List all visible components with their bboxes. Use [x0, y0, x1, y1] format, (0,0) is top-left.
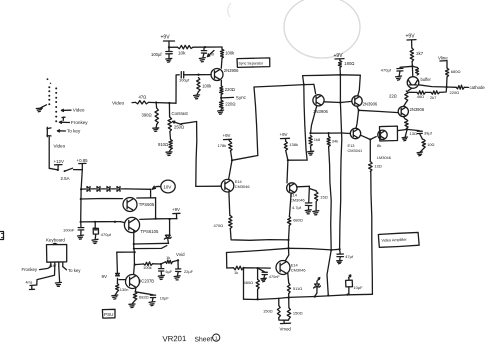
- svg-text:Vline: Vline: [438, 56, 448, 61]
- svg-text:Fronkey: Fronkey: [71, 120, 88, 125]
- svg-text:10µF: 10µF: [353, 285, 363, 290]
- svg-text:100µf: 100µf: [179, 78, 190, 83]
- svg-text:+9V: +9V: [172, 207, 180, 212]
- svg-text:10µF: 10µF: [160, 295, 170, 300]
- svg-text:Video: Video: [112, 101, 125, 107]
- svg-text:910Ω: 910Ω: [158, 142, 168, 147]
- svg-text:470Ω: 470Ω: [214, 223, 224, 228]
- svg-text:4.7µf: 4.7µf: [292, 205, 302, 210]
- svg-text:BC237B: BC237B: [139, 279, 155, 284]
- svg-text:Video: Video: [54, 144, 66, 149]
- svg-text:682Ω: 682Ω: [139, 295, 149, 300]
- svg-text:To key: To key: [68, 268, 81, 273]
- svg-text:+9V: +9V: [223, 133, 231, 138]
- svg-text:1k8: 1k8: [314, 137, 321, 142]
- svg-text:39µf: 39µf: [424, 131, 433, 136]
- svg-text:138k: 138k: [289, 142, 298, 147]
- svg-text:cathode: cathode: [470, 85, 486, 90]
- svg-text:100nF: 100nF: [63, 228, 75, 233]
- svg-text:Sync Separator: Sync Separator: [239, 62, 264, 66]
- svg-text:470nF: 470nF: [269, 275, 280, 279]
- svg-text:680Ω: 680Ω: [244, 280, 254, 285]
- svg-text:680Ω: 680Ω: [293, 217, 303, 222]
- svg-text:Keyboard: Keyboard: [46, 238, 65, 243]
- svg-text:180Ω: 180Ω: [344, 61, 354, 66]
- svg-text:15Ω: 15Ω: [320, 195, 327, 200]
- svg-text:6µF: 6µF: [166, 269, 173, 274]
- svg-text:13Ω: 13Ω: [374, 164, 381, 169]
- svg-text:9V: 9V: [102, 274, 109, 279]
- svg-text:22Ω: 22Ω: [389, 93, 397, 98]
- svg-text:1k: 1k: [166, 255, 170, 260]
- svg-text:150Ω: 150Ω: [293, 311, 303, 316]
- svg-text:buffer: buffer: [421, 77, 432, 82]
- svg-text:2N3906: 2N3906: [410, 107, 425, 112]
- svg-text:47µf: 47µf: [345, 254, 354, 259]
- svg-text:22µF: 22µF: [184, 269, 194, 274]
- svg-text:178k: 178k: [218, 143, 227, 148]
- svg-text:470µf: 470µf: [101, 232, 112, 237]
- svg-text:+9V: +9V: [280, 132, 288, 137]
- svg-text:1: 1: [215, 336, 218, 342]
- svg-text:2N3906: 2N3906: [363, 102, 378, 107]
- svg-text:Vmod: Vmod: [280, 327, 292, 332]
- svg-text:CM3046: CM3046: [235, 184, 250, 189]
- svg-text:Fronkey: Fronkey: [22, 267, 38, 272]
- svg-text:150Ω: 150Ω: [263, 309, 273, 314]
- svg-text:2k7: 2k7: [416, 51, 423, 56]
- svg-text:CM3046: CM3046: [290, 197, 305, 202]
- svg-text:250Ω: 250Ω: [174, 125, 184, 130]
- svg-text:2N3906: 2N3906: [224, 68, 239, 73]
- svg-text:34k: 34k: [332, 138, 338, 143]
- svg-text:LM3046: LM3046: [377, 155, 391, 160]
- svg-text:220Ω: 220Ω: [450, 90, 460, 95]
- svg-text:130n: 130n: [120, 287, 129, 292]
- svg-text:13Ω: 13Ω: [410, 131, 417, 136]
- svg-text:+9V: +9V: [161, 35, 171, 41]
- svg-text:220Ω: 220Ω: [225, 87, 235, 92]
- svg-text:100k: 100k: [225, 50, 235, 55]
- svg-text:10Ω: 10Ω: [427, 142, 434, 147]
- svg-text:680Ω: 680Ω: [451, 69, 461, 74]
- svg-text:CM3041: CM3041: [348, 148, 363, 153]
- svg-text:TPS6105: TPS6105: [141, 229, 160, 234]
- svg-text:100k: 100k: [202, 84, 212, 89]
- svg-text:46Ω: 46Ω: [417, 94, 424, 99]
- svg-text:+9V: +9V: [406, 34, 416, 40]
- svg-text:Sheet: Sheet: [194, 336, 212, 343]
- svg-text:470µf: 470µf: [381, 68, 392, 73]
- svg-text:100µf: 100µf: [151, 52, 162, 57]
- svg-text:To key: To key: [67, 129, 81, 134]
- svg-text:4ms: 4ms: [26, 281, 33, 285]
- svg-text:10V: 10V: [163, 185, 172, 190]
- svg-text:220Ω: 220Ω: [225, 102, 235, 107]
- svg-text:Vvid: Vvid: [176, 252, 185, 257]
- svg-text:100k: 100k: [143, 265, 152, 270]
- svg-text:Contrast: Contrast: [172, 111, 189, 116]
- svg-text:10k: 10k: [178, 51, 186, 56]
- svg-text:8k: 8k: [377, 143, 381, 148]
- svg-text:511Ω: 511Ω: [293, 286, 302, 291]
- svg-text:+12V: +12V: [54, 159, 64, 164]
- svg-text:VR201: VR201: [162, 334, 186, 343]
- svg-text:+0.85: +0.85: [77, 158, 89, 163]
- svg-text:390Ω: 390Ω: [142, 113, 152, 118]
- svg-text:47Ω: 47Ω: [139, 95, 147, 100]
- svg-text:2k7: 2k7: [430, 95, 436, 100]
- svg-text:2.5A: 2.5A: [61, 176, 70, 181]
- svg-text:PSU: PSU: [104, 312, 113, 317]
- svg-text:Video: Video: [73, 108, 85, 113]
- svg-text:CM3046: CM3046: [291, 268, 306, 273]
- svg-text:1k: 1k: [234, 270, 238, 275]
- svg-text:TPS605: TPS605: [139, 202, 155, 207]
